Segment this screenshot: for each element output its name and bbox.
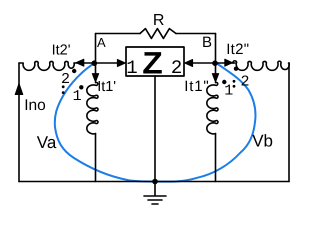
svg-text:Va: Va bbox=[37, 133, 57, 152]
inductor It1' (vertical coil, left branch) bbox=[87, 63, 98, 134]
blue flux loop bbox=[55, 63, 256, 182]
svg-text:It1': It1' bbox=[97, 79, 116, 95]
polarity dot winding 2 left bbox=[72, 69, 76, 73]
svg-text:A: A bbox=[97, 35, 106, 50]
current arrow Ino (points up, on left rail) bbox=[15, 84, 23, 95]
wire: node B to coil It2'' bbox=[216, 62, 236, 64]
ground node junction dot bbox=[152, 179, 158, 185]
svg-text:R: R bbox=[153, 12, 165, 29]
wire: Z box bottom to ground node bbox=[154, 76, 156, 182]
node B junction dot bbox=[212, 60, 218, 66]
current arrow It2'' (points right) bbox=[225, 59, 233, 66]
svg-text:1: 1 bbox=[73, 88, 82, 105]
inductor It1'' (vertical coil, right branch) bbox=[207, 63, 218, 134]
impedance box Z bbox=[126, 47, 184, 76]
svg-text:2: 2 bbox=[241, 74, 250, 91]
svg-text:Z: Z bbox=[142, 46, 163, 81]
svg-text:1: 1 bbox=[126, 57, 137, 79]
wire: right rail bbox=[288, 63, 290, 182]
wire: node A to Z terminal 1 bbox=[96, 62, 119, 64]
svg-text:2: 2 bbox=[61, 71, 70, 88]
wire: coil It1' to bottom rail bbox=[95, 134, 97, 182]
svg-text:Ino: Ino bbox=[24, 97, 46, 114]
wire: coil It1'' to bottom rail bbox=[215, 134, 217, 182]
resistor R bbox=[140, 29, 176, 39]
inductor It2'' (horizontal coil, right) bbox=[233, 61, 289, 71]
node A junction dot bbox=[92, 60, 98, 66]
wire: coil It2' to node A bbox=[74, 62, 94, 64]
svg-text:It2': It2' bbox=[52, 43, 71, 59]
polarity dot winding 2 right bbox=[234, 67, 238, 71]
colon mark right bbox=[233, 80, 236, 83]
current arrow It1' (points down) bbox=[92, 74, 98, 82]
wire: riser node A to resistor row bbox=[95, 34, 97, 64]
current arrow into Z pin 1 (points right) bbox=[117, 60, 125, 67]
svg-text:B: B bbox=[202, 34, 212, 51]
wire: node B to Z terminal 2 bbox=[193, 62, 216, 64]
svg-text:1: 1 bbox=[224, 83, 233, 100]
svg-text:It2": It2" bbox=[226, 41, 249, 58]
current arrow It2' (points left) bbox=[76, 59, 84, 66]
wire: resistor top row right segment bbox=[176, 33, 216, 35]
svg-text:2: 2 bbox=[171, 57, 182, 79]
current arrow It1'' (points down) bbox=[212, 74, 218, 82]
svg-text:It1": It1" bbox=[184, 78, 209, 95]
svg-text:Vb: Vb bbox=[252, 132, 273, 151]
colon mark left bbox=[62, 85, 65, 88]
wire: left rail bbox=[18, 63, 20, 182]
ground bbox=[144, 182, 166, 205]
polarity dot winding 1 left bbox=[79, 85, 83, 89]
wire: riser resistor row to node B bbox=[215, 34, 217, 64]
current arrow into Z pin 2 (points left) bbox=[185, 60, 193, 67]
wire: resistor top row left segment bbox=[96, 33, 141, 35]
inductor It2' (horizontal coil, left) bbox=[19, 61, 74, 70]
wire: bottom rail bbox=[19, 181, 289, 183]
polarity dot winding 1 right bbox=[222, 80, 226, 84]
